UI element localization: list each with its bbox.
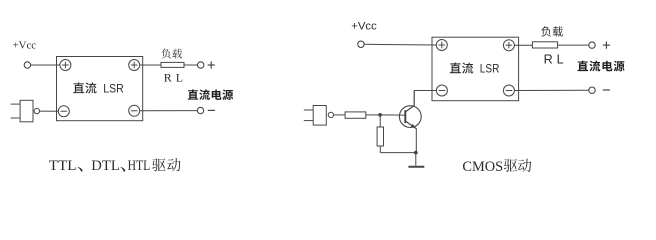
pin - input terminal of U3	[436, 85, 447, 96]
wire Vcc to relay U3 + input	[364, 43, 436, 46]
wire Vcc to relay input +	[31, 64, 60, 66]
label - polarity (left)	[208, 109, 215, 111]
label 直流电源 DC supply (left)	[188, 89, 198, 99]
resistor R2 pulldown	[377, 127, 383, 146]
label 直流电源 DC supply (right)	[577, 61, 588, 71]
pin - output terminal of U3	[503, 85, 514, 96]
gate U4 (CMOS driver) body	[313, 106, 326, 126]
wire resistor to + supply terminal	[184, 64, 198, 66]
pin + output terminal of U1	[129, 60, 140, 71]
relay U3 直流 LSR body (right)	[432, 37, 519, 100]
wire gate output to U1 - input	[40, 110, 59, 112]
wire gate U4 input A	[304, 109, 313, 111]
wire pulldown resistor to emitter rail	[379, 146, 381, 153]
svg-text:+Vcc: +Vcc	[351, 21, 377, 33]
label 负载 (load, right)	[541, 26, 551, 36]
wire node B to ground	[415, 153, 417, 166]
relay U1 直流 LSR body (left)	[57, 57, 143, 121]
svg-text:DTL: DTL	[91, 158, 120, 174]
svg-text:CMOS: CMOS	[462, 159, 503, 175]
wire resistor to + supply terminal (right)	[558, 44, 589, 46]
svg-text:TTL: TTL	[49, 158, 77, 174]
label 负载 (load, left)	[161, 49, 170, 59]
label + polarity (right)	[603, 44, 610, 46]
svg-text:HTL: HTL	[128, 158, 151, 174]
resistor R1 base series	[345, 112, 366, 118]
svg-text:R: R	[164, 70, 172, 84]
wire U3 + output to load resistor	[514, 44, 532, 46]
transistor Q1 emitter stroke with arrow	[405, 121, 416, 129]
node - supply terminal (right)	[589, 87, 595, 93]
node + supply terminal (left)	[198, 62, 204, 68]
wire collector up to U3 - input	[413, 91, 415, 106]
node + supply terminal (right)	[589, 42, 595, 48]
node Vcc terminal (left)	[24, 62, 30, 68]
pin - input terminal of U1	[58, 106, 69, 117]
pin + input terminal of U3	[436, 40, 447, 51]
wire gate output to base resistor	[334, 114, 346, 116]
label - polarity (right)	[603, 89, 610, 91]
wire base resistor to node A	[366, 114, 380, 116]
wire U3 - input to collector of Q1	[414, 90, 436, 92]
gate U2 inverting output bubble	[34, 108, 39, 113]
node A junction dot	[378, 113, 382, 117]
ground	[408, 166, 424, 168]
transistor Q1 base bar	[404, 110, 406, 123]
node - supply terminal (left)	[197, 107, 203, 113]
transistor Q1 NPN body circle	[399, 106, 421, 128]
svg-text:LSR: LSR	[103, 82, 124, 96]
label 直流 LSR on U1	[73, 82, 84, 93]
wire U3 - output to - supply terminal (right)	[514, 89, 588, 91]
wire gate U4 input B	[304, 120, 313, 122]
wire U1 + output to load resistor	[140, 64, 161, 66]
gate U2 (TTL driver) body	[20, 100, 33, 122]
wire gate U2 input B	[11, 117, 20, 119]
wire emitter rail	[380, 152, 416, 154]
gate U4 inverting output bubble	[328, 112, 333, 117]
wire gate U2 input A	[11, 103, 20, 105]
wire node A to base of Q1	[380, 114, 405, 116]
label + polarity (left)	[208, 64, 215, 66]
resistor RL load (right)	[532, 42, 557, 48]
svg-text:LSR: LSR	[480, 62, 500, 76]
pin - output terminal of U1	[129, 105, 140, 116]
node B junction dot	[414, 151, 418, 155]
node Vcc terminal (right)	[358, 41, 364, 47]
wire node A down to pulldown resistor	[379, 115, 381, 127]
transistor Q1 collector stroke	[405, 105, 414, 112]
wire emitter down to node B	[415, 128, 417, 152]
svg-text:L: L	[176, 70, 183, 84]
svg-text:+Vcc: +Vcc	[13, 39, 37, 51]
label 直流 LSR on U3	[450, 62, 461, 73]
pin + output terminal of U3	[503, 40, 514, 51]
svg-text:R: R	[544, 53, 553, 67]
resistor RL load (left)	[161, 62, 184, 67]
pin + input terminal of U1	[60, 60, 71, 71]
wire U1 - output to - supply terminal	[140, 110, 198, 112]
svg-text:L: L	[557, 53, 564, 67]
